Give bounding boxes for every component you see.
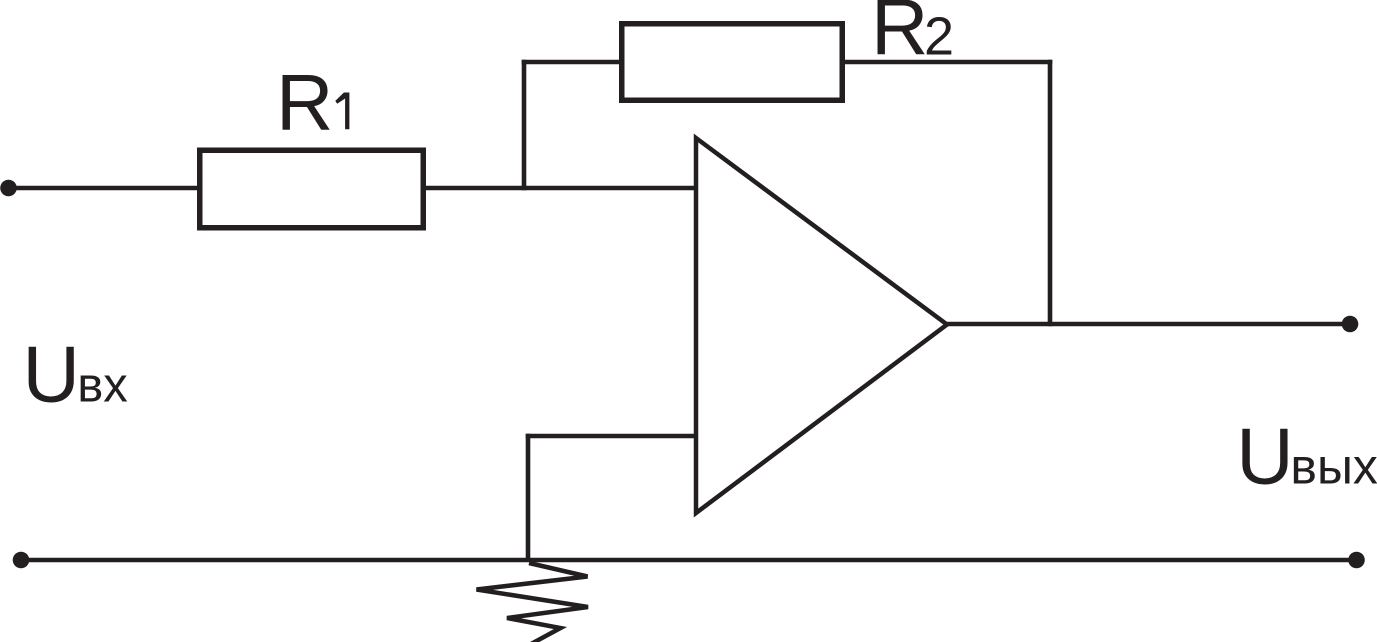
svg-text:U: U: [23, 330, 80, 419]
svg-text:R: R: [276, 58, 333, 147]
op-amp U1: [696, 138, 947, 513]
terminal dot bottom right: [1348, 552, 1365, 569]
svg-text:2: 2: [924, 6, 954, 66]
wire non-inverting riser: [526, 434, 531, 560]
wire input: [9, 186, 200, 191]
wire feedback riser: [522, 60, 527, 191]
label R1: [276, 58, 349, 147]
wire non-inverting input: [526, 434, 694, 439]
wire R2 to output riser: [845, 60, 1052, 65]
resistor R1: [200, 150, 424, 228]
wire bottom rail: [21, 558, 1357, 563]
terminal dot bottom left: [13, 552, 30, 569]
wire feedback top: [522, 60, 619, 65]
label U_vx: [23, 330, 128, 419]
svg-text:вых: вых: [1290, 439, 1377, 495]
label R2: [871, 0, 954, 71]
terminal dot output: [1342, 316, 1359, 333]
wire R1 to op-amp inverting input: [426, 186, 696, 191]
squiggle break mark: [477, 563, 589, 642]
wire feedback drop: [1048, 60, 1053, 327]
svg-text:вх: вх: [77, 359, 128, 413]
terminal dot input: [0, 180, 17, 197]
label U_vyx: [1236, 412, 1377, 501]
resistor R2: [622, 24, 843, 101]
wire output: [947, 322, 1350, 327]
svg-text:U: U: [1236, 412, 1293, 501]
